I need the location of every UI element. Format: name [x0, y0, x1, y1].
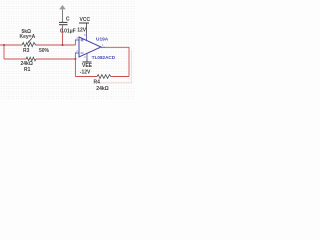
op-amp U19A triangle: [79, 37, 101, 57]
op-amp output stub pin 1: [101, 46, 105, 48]
svg-text:C: C: [66, 16, 70, 22]
svg-text:R3: R3: [23, 48, 30, 54]
wire: pot to cap junction to opamp jog: [37, 44, 75, 46]
op-amp + input marker: [81, 39, 84, 41]
wire: inverting node down to feedback rail: [74, 59, 76, 77]
svg-text:50%: 50%: [39, 48, 50, 54]
node A junction: [3, 44, 5, 46]
wire: input from left edge to pot: [0, 44, 22, 46]
wire: left vertical: [3, 45, 5, 59]
wire: feedback rail right of R4: [112, 76, 129, 78]
wire: feedback rail left of R4: [75, 76, 97, 78]
capacitor C plates: [59, 21, 68, 23]
node C junction (cap tap): [62, 44, 64, 46]
wire: output wire: [105, 47, 130, 76]
node B junction (inverting node): [74, 58, 76, 60]
wire: jog up to - input: [74, 53, 77, 59]
svg-text:R1: R1: [24, 67, 31, 73]
op-amp VCC stub pin 8: [86, 34, 88, 41]
svg-text:VEE: VEE: [82, 63, 93, 69]
wire: VCC stem to pin 8: [86, 23, 88, 34]
svg-text:-12V: -12V: [80, 69, 91, 75]
svg-text:TL082ACD: TL082ACD: [92, 55, 116, 60]
svg-text:R4: R4: [94, 80, 101, 86]
wire: capacitor branch down to top rail: [62, 30, 64, 46]
wire: jog up to + input: [74, 40, 77, 45]
resistor R1 zigzag: [26, 57, 36, 61]
svg-text:Key=A: Key=A: [20, 34, 36, 40]
svg-text:24kΩ: 24kΩ: [96, 86, 108, 92]
background grid: [0, 0, 135, 100]
resistor R4 zigzag (feedback): [97, 75, 112, 79]
wire: R1 to inverting node: [36, 58, 75, 60]
op-amp - input marker: [81, 52, 84, 54]
svg-text:VCC: VCC: [80, 17, 91, 23]
wire: bottom rail left to R1: [4, 58, 26, 60]
potentiometer R3 wiper arrow: [29, 38, 32, 42]
ghost wire loop (faint): [98, 50, 131, 83]
op-amp + input stub pin 3: [75, 39, 79, 41]
svg-text:0.01µF: 0.01µF: [60, 28, 76, 34]
op-amp - input stub pin 2: [75, 52, 79, 54]
svg-text:U19A: U19A: [96, 36, 109, 42]
potentiometer R3 zigzag: [22, 43, 38, 47]
op-amp VEE stub pin 4: [86, 54, 88, 60]
input arrow terminal: [59, 5, 66, 9]
VEE power symbol: [86, 59, 88, 62]
